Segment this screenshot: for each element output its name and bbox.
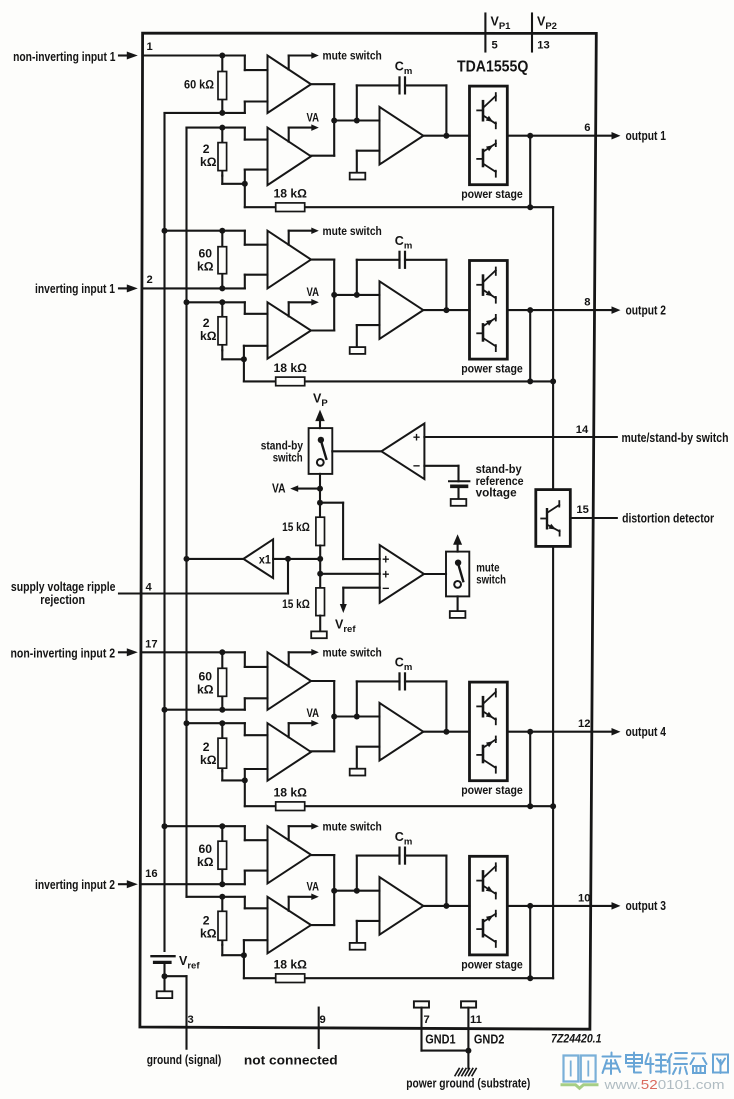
wire U6 output to mute switch [424, 573, 446, 575]
svg-text:9: 9 [320, 1014, 326, 1026]
svg-text:inverting input 1: inverting input 1 [35, 282, 115, 296]
svg-text:GND2: GND2 [474, 1032, 505, 1046]
wire A2 reference input to signal ground ch2 [357, 325, 380, 347]
op-amp A1b ch2 [268, 302, 312, 358]
wire divider bottom to signal ground [319, 616, 321, 632]
IC package boundary box TDA1555Q [140, 33, 596, 1029]
svg-text:voltage: voltage [476, 486, 517, 500]
wire feedback from output to 18k ch4 [527, 906, 533, 981]
svg-text:17: 17 [145, 638, 157, 650]
power stage block ch2 [470, 261, 508, 360]
svg-text:power stage: power stage [461, 957, 523, 971]
watermark book icon [564, 1056, 596, 1082]
wire A1b output ch1 [311, 155, 334, 157]
svg-text:rejection: rejection [40, 593, 85, 607]
op-amp A2 ch3 [380, 703, 424, 761]
pin 7 GND1 lead [420, 1008, 422, 1051]
wire pin 2 line to 60k bottom and op-amp ch2 [142, 275, 268, 292]
op-amp A1 ch4 [268, 826, 312, 883]
svg-text:−: − [382, 581, 389, 595]
svg-text:ground (signal): ground (signal) [147, 1053, 222, 1067]
wire A1 output to riser ch3 [311, 681, 334, 751]
svg-text:+: + [382, 567, 389, 581]
wire divider mid to comparator second input [320, 573, 380, 575]
op-amp A1b ch1 [268, 128, 312, 186]
svg-text:3: 3 [188, 1014, 194, 1026]
svg-text:kΩ: kΩ [200, 926, 217, 940]
pin 13 VP2 supply stub [531, 14, 533, 52]
resistor 2 kOhm ch3 [218, 723, 248, 783]
wire A1 output to riser ch4 [311, 855, 334, 925]
op-amp A1b ch4 [268, 897, 312, 954]
signal ground symbol at A2 ch4 [350, 943, 366, 950]
wire sense tap to distortion bus ch2 [530, 378, 556, 384]
label 60 kOhm ch2 [197, 247, 214, 274]
signal ground symbol at A2 ch3 [350, 769, 366, 776]
wire 60k bottom line to bus and op-amp ch1 [165, 102, 268, 116]
resistor 15 kOhm upper [316, 517, 325, 545]
svg-text:15 kΩ: 15 kΩ [282, 597, 310, 611]
wire A1b output ch2 [311, 329, 334, 331]
svg-text:10: 10 [578, 892, 590, 904]
wire A1b ch2 output to VA tap [289, 302, 312, 316]
resistor 18 kOhm ch1 [276, 203, 305, 212]
svg-text:18 kΩ: 18 kΩ [273, 361, 307, 375]
resistor 2 kOhm ch4 [218, 897, 247, 958]
wire mute switch to signal ground [457, 596, 459, 611]
resistor 18 kOhm ch2 [276, 377, 305, 386]
svg-text:60: 60 [198, 247, 212, 261]
power stage block ch3 [470, 682, 508, 781]
arrow VA A1b ch2 [311, 299, 319, 306]
arrow VA A1b ch1 [311, 124, 319, 131]
op-amp A1 ch2 [268, 231, 312, 289]
wire A2 reference input to signal ground ch4 [357, 921, 380, 943]
svg-text:15 kΩ: 15 kΩ [282, 520, 310, 534]
signal ground at stand-by reference [451, 499, 467, 506]
wire distortion sense bus vertical lower [552, 546, 554, 978]
arrow mute switch up [453, 534, 462, 551]
wire A1b ch1 output to VA tap [289, 128, 312, 142]
svg-text:power stage: power stage [461, 783, 523, 797]
svg-text:−: − [413, 459, 420, 473]
svg-text:kΩ: kΩ [200, 753, 217, 767]
wire 60k bottom line to bus1 ch3 [162, 698, 268, 712]
svg-text:2: 2 [203, 316, 210, 330]
svg-text:switch: switch [273, 451, 303, 465]
wire A2 input line ch1 [331, 118, 379, 124]
svg-text:15: 15 [576, 504, 588, 516]
arrow mute switch A1 ch3 [311, 649, 319, 656]
pin 3 ground signal lead [185, 976, 187, 1048]
svg-text:5: 5 [492, 39, 498, 51]
signal ground symbol at A2 ch2 [350, 347, 366, 354]
op-amp A2 ch1 [380, 107, 424, 165]
svg-text:kΩ: kΩ [197, 682, 214, 696]
wire A1 ch2 output to mute-switch tap [289, 231, 312, 245]
mute switch box [446, 552, 469, 597]
wire 60k top line from bus1 ch2 [162, 228, 268, 245]
svg-text:8: 8 [584, 297, 590, 309]
pin 2 input lead with arrow [119, 284, 138, 292]
op-amp x1 buffer [243, 539, 273, 578]
wire 2k node down to 18k line ch1 [244, 184, 246, 207]
wire divider column upper [319, 503, 321, 518]
svg-text:2: 2 [203, 142, 210, 156]
svg-text:supply voltage ripple: supply voltage ripple [11, 580, 116, 594]
wire pin 17 line to 60k top and op-amp input [141, 649, 268, 667]
svg-text:kΩ: kΩ [200, 329, 217, 343]
wire A2 feedback via Cm ch3 [357, 681, 450, 734]
wire 2k top line from bus2 ch4 [187, 894, 268, 909]
op-amp stand-by comparator U5 [381, 424, 424, 480]
wire output line ch3 [423, 729, 592, 735]
pin 5 VP1 supply stub [484, 14, 486, 52]
op-amp A1 ch1 [268, 56, 312, 114]
label 2 kOhm ch2 [200, 316, 217, 343]
wire bus VA net left vertical [185, 128, 187, 897]
svg-text:mute switch: mute switch [323, 646, 382, 660]
arrow VP supply up [315, 410, 325, 429]
svg-text:x1: x1 [259, 553, 271, 567]
svg-text:18 kΩ: 18 kΩ [273, 958, 307, 972]
svg-text:2: 2 [203, 913, 210, 927]
transistor distortion detector [541, 501, 559, 535]
pin 17 input lead with arrow [119, 648, 138, 656]
GND1 pin box [414, 1001, 429, 1007]
wire feedback from output to 18k ch3 [527, 732, 533, 810]
wire A1 ch3 output to mute-switch tap [289, 652, 312, 666]
svg-text:kΩ: kΩ [200, 155, 217, 169]
svg-text:VA: VA [307, 285, 320, 299]
power ground substrate symbol [455, 1069, 476, 1076]
wire sense tap to distortion bus ch4 [530, 977, 553, 979]
watermark chinese site name glyphs [603, 1053, 729, 1075]
pin 16 input lead with arrow [119, 880, 138, 888]
svg-text:mute switch: mute switch [323, 49, 382, 63]
resistor 60 kOhm ch3 [218, 652, 227, 709]
wire pin 16 line to 60k bottom and op-amp ch4 [140, 871, 267, 888]
wire A1 output to riser ch2 [311, 260, 334, 331]
svg-text:www.520101.com: www.520101.com [603, 1077, 724, 1092]
pin 9 not connected stub [318, 1008, 320, 1048]
pin 11 GND2 lead [467, 1008, 469, 1051]
svg-text:16: 16 [145, 868, 157, 880]
svg-text:power ground (substrate): power ground (substrate) [406, 1077, 530, 1091]
arrow VA A1b ch3 [311, 720, 319, 727]
resistor 60 kOhm ch2 [218, 231, 227, 289]
svg-text:non-inverting input 2: non-inverting input 2 [11, 646, 116, 660]
label supply voltage ripple rejection [11, 580, 116, 607]
wire pin 1 line to 60k top and op-amp input [143, 53, 268, 71]
resistor 60 kOhm ch4 [218, 826, 227, 884]
wire 18k feedback line ch2 [244, 380, 530, 382]
wire 18k feedback line ch4 [244, 977, 530, 979]
op-amp A2 ch2 [380, 281, 424, 339]
svg-text:1: 1 [147, 41, 153, 53]
wire A1 output to riser ch1 [311, 84, 334, 156]
label 2 kOhm ch1 [200, 142, 217, 169]
signal ground at mute switch [450, 611, 466, 618]
svg-text:VA: VA [272, 482, 286, 496]
wire pin 14 mute/stand-by line [424, 436, 593, 438]
svg-text:power stage: power stage [461, 187, 523, 201]
arrow mute switch A1 ch1 [311, 52, 319, 59]
label mute switch mid [476, 561, 506, 587]
wire 2k top line from bus2 ch1 [187, 125, 268, 140]
svg-text:60: 60 [198, 842, 212, 856]
svg-text:6: 6 [584, 122, 590, 134]
wire distortion sense bus vertical upper [552, 207, 554, 489]
wire A2 reference input to signal ground ch1 [357, 151, 380, 173]
svg-text:mute switch: mute switch [323, 224, 382, 238]
op-amp A1b ch3 [268, 723, 312, 781]
signal ground symbol at A2 ch1 [350, 173, 366, 180]
wire divider mid node [317, 546, 323, 588]
capacitor Cm ch2 [400, 252, 406, 268]
svg-text:18 kΩ: 18 kΩ [273, 187, 307, 201]
pin 12 output lead with arrow [592, 728, 621, 736]
resistor 60 kOhm ch1 [218, 56, 227, 113]
svg-text:distortion detector: distortion detector [622, 511, 714, 525]
mute switch contacts [454, 560, 463, 588]
pin 15 distortion detector line [570, 517, 617, 519]
stand-by switch contacts [317, 437, 326, 466]
wire A1b ch3 output to VA tap [289, 723, 312, 737]
svg-text:12: 12 [578, 718, 590, 730]
wire A2 input line ch2 [331, 292, 379, 298]
resistor 15 kOhm lower [316, 588, 325, 616]
wire 2k top line from bus2 ch3 [184, 720, 268, 735]
label 2 kOhm ch3 [200, 740, 217, 767]
svg-text:4: 4 [146, 582, 153, 594]
resistor 18 kOhm ch3 [276, 802, 305, 811]
pin 14 lead [594, 436, 617, 438]
pin 8 output lead with arrow [595, 306, 621, 314]
node VA branch to comparator [317, 500, 380, 559]
pin 10 output lead with arrow [591, 902, 621, 910]
svg-text:+: + [413, 430, 420, 444]
svg-text:2: 2 [203, 740, 210, 754]
svg-text:power stage: power stage [461, 362, 523, 376]
wire feedback from output to 18k ch1 [527, 136, 533, 211]
svg-text:60 kΩ: 60 kΩ [184, 77, 214, 91]
wire output line ch4 [423, 903, 590, 909]
svg-text:output 4: output 4 [626, 725, 667, 739]
distortion detector box [536, 490, 571, 547]
svg-text:VA: VA [307, 880, 320, 894]
pin 4 supply ripple line [119, 556, 291, 594]
svg-text:output 2: output 2 [626, 303, 667, 317]
svg-text:7: 7 [424, 1014, 430, 1026]
svg-text:non-inverting input 1: non-inverting input 1 [13, 50, 115, 64]
wire stand-by comparator output to switch [332, 450, 381, 452]
label stand-by switch [261, 439, 303, 465]
stand-by switch box [309, 428, 333, 474]
arrow mute switch A1 ch2 [311, 227, 319, 234]
wire 2k node down to 18k line ch3 [244, 780, 246, 806]
resistor 2 kOhm ch1 [218, 128, 248, 187]
arrow VA A1b ch4 [311, 894, 319, 901]
op-amp A2 ch4 [380, 877, 424, 935]
wire feedback from output to 18k ch2 [527, 310, 533, 384]
wire A1 ch4 output to mute-switch tap [289, 826, 312, 840]
power stage block ch1 [470, 86, 508, 185]
capacitor Cm ch3 [400, 673, 406, 689]
svg-text:VA: VA [307, 110, 320, 124]
wire 2k node down to 18k line ch4 [243, 955, 245, 978]
svg-text:+: + [382, 553, 389, 567]
svg-text:mute/stand-by switch: mute/stand-by switch [622, 431, 729, 445]
label 60 kOhm ch4 [197, 842, 214, 869]
signal ground below Vref [163, 976, 165, 991]
wire 2k bottom into op-amp A1b ch3 [245, 769, 268, 780]
wire 2k bottom into op-amp A1b ch1 [245, 170, 268, 184]
svg-text:7Z24420.1: 7Z24420.1 [551, 1031, 602, 1045]
svg-text:60: 60 [198, 669, 212, 683]
wire A2 feedback via Cm ch1 [357, 85, 450, 138]
svg-text:13: 13 [537, 39, 549, 51]
wire A2 input line ch4 [331, 888, 379, 894]
wire A2 feedback via Cm ch2 [357, 260, 450, 313]
svg-text:VA: VA [307, 706, 320, 720]
wire GND1 to GND2 junction [422, 1048, 472, 1069]
op-amp A1 ch3 [268, 652, 312, 710]
capacitor Cm ch4 [400, 848, 406, 864]
wire sense tap to distortion bus ch1 [530, 206, 553, 208]
wire U5 minus input to stand-by reference [424, 466, 458, 482]
pin 6 output lead with arrow [596, 132, 621, 140]
svg-text:2: 2 [147, 274, 153, 286]
svg-text:14: 14 [576, 424, 589, 436]
wire 2k node down to 18k line ch2 [243, 359, 245, 381]
resistor 18 kOhm ch4 [276, 974, 305, 983]
wire 2k bottom into op-amp A1b ch4 [244, 940, 268, 955]
label 60 kOhm ch3 [197, 669, 214, 696]
arrow mute switch A1 ch4 [311, 823, 319, 830]
svg-text:not connected: not connected [244, 1053, 338, 1067]
arrow VA output left [290, 485, 323, 492]
op-amp mute comparator U6 [380, 545, 424, 603]
signal ground at divider [311, 631, 327, 638]
wire 2k bottom into op-amp A1b ch2 [244, 346, 268, 360]
wire A1b ch4 output to VA tap [289, 897, 312, 911]
battery stand-by reference voltage [449, 481, 469, 499]
svg-text:kΩ: kΩ [197, 855, 214, 869]
svg-text:TDA1555Q: TDA1555Q [457, 58, 528, 75]
svg-text:18 kΩ: 18 kΩ [273, 786, 307, 800]
wire A1 ch1 output to mute-switch tap [289, 56, 312, 70]
svg-text:switch: switch [476, 573, 506, 587]
wire A2 reference input to signal ground ch3 [357, 747, 380, 769]
wire stand-by switch to VA node [319, 474, 321, 503]
wire U6 minus input to Vref arrow [340, 588, 380, 613]
svg-text:output 1: output 1 [626, 129, 667, 143]
GND2 pin box [461, 1001, 476, 1007]
wire 2k top line from bus2 ch2 [184, 299, 268, 314]
signal ground box below Vref [157, 991, 173, 998]
wire A1b output ch4 [311, 924, 334, 926]
wire 18k feedback line ch1 [245, 206, 530, 208]
svg-text:11: 11 [470, 1014, 482, 1026]
wire 18k feedback line ch3 [245, 805, 530, 807]
wire sense tap to distortion bus ch3 [530, 803, 556, 809]
battery Vref source [152, 956, 175, 979]
label 2 kOhm ch4 [200, 913, 217, 940]
svg-text:output 3: output 3 [626, 899, 667, 913]
capacitor Cm ch1 [400, 77, 406, 93]
svg-text:GND1: GND1 [425, 1032, 455, 1046]
wire 60k top line from bus1 ch4 [162, 823, 268, 840]
svg-text:kΩ: kΩ [197, 260, 214, 274]
wire x1 output to bus2 [184, 556, 244, 562]
wire A1b output ch3 [311, 750, 334, 752]
wire A2 input line ch3 [331, 714, 379, 720]
wire bus feedback net (60k cross-couple) left vertical [163, 113, 165, 951]
wire output line ch1 [423, 133, 595, 139]
svg-text:mute switch: mute switch [323, 819, 382, 833]
resistor 2 kOhm ch2 [218, 302, 247, 362]
wire A2 feedback via Cm ch4 [357, 856, 450, 909]
label stand-by reference voltage [476, 462, 524, 499]
power stage block ch4 [470, 856, 508, 955]
wire x1 buffer input line [273, 558, 320, 560]
wire Vref node to bus2 and pin 3 [165, 975, 187, 977]
svg-text:inverting input 2: inverting input 2 [35, 878, 115, 892]
pin 1 input lead with arrow [119, 52, 138, 60]
wire output line ch2 [423, 307, 594, 313]
